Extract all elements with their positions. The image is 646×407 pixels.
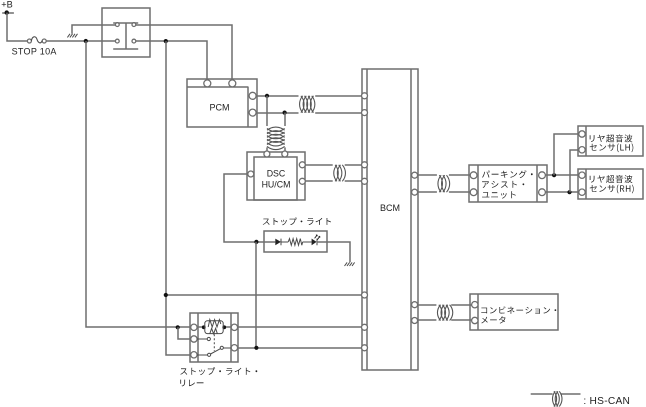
svg-text:PCM: PCM [210,103,230,113]
svg-text:DSC: DSC [267,169,286,179]
svg-text:STOP 10A: STOP 10A [12,47,57,57]
svg-text:HU/CM: HU/CM [262,180,291,190]
svg-text:: HS-CAN: : HS-CAN [583,396,630,407]
svg-text:BCM: BCM [380,203,400,213]
svg-text:+B: +B [1,0,13,9]
